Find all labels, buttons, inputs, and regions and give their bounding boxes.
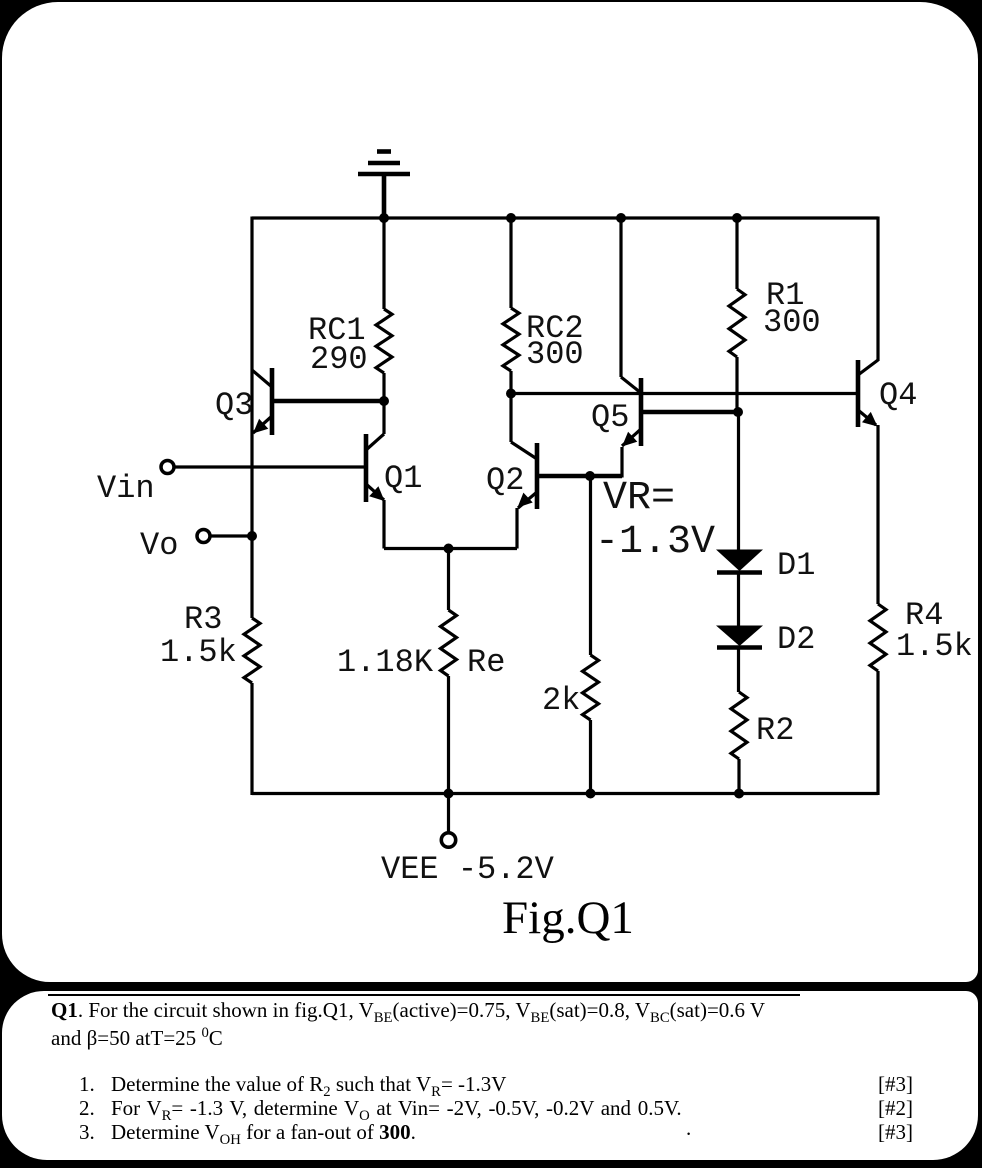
wire Q2 base to VR node [537, 447, 622, 478]
svg-text:VEE -5.2V: VEE -5.2V [381, 851, 555, 888]
transistor Q5 [591, 218, 641, 447]
wire D2 to R2 [737, 647, 740, 692]
transistor Q3 [215, 368, 272, 435]
resistor R4 [870, 597, 973, 795]
svg-text:-1.3V: -1.3V [595, 520, 715, 565]
node Q5 collector at rail [616, 213, 626, 223]
ground [358, 152, 410, 220]
resistor RC2 [503, 218, 584, 394]
node RC2 at rail [506, 213, 516, 223]
svg-text:Q3: Q3 [215, 387, 253, 424]
resistor R1 [729, 218, 821, 412]
svg-text:300: 300 [526, 336, 584, 373]
svg-text:1.5k: 1.5k [896, 628, 973, 665]
svg-text:Vin: Vin [97, 470, 155, 507]
svg-text:D2: D2 [777, 621, 815, 658]
wire Vin to Q1 base [175, 465, 367, 468]
svg-text:300: 300 [763, 304, 821, 341]
resistor R2 [731, 692, 794, 794]
diode D1 [716, 547, 815, 584]
wire RC2 node to Q4 base [511, 392, 858, 395]
resistor Re 1.18K [337, 548, 505, 794]
node R1 at rail [732, 213, 742, 223]
transistor Q2 [486, 394, 537, 510]
wire Q4 emitter down [876, 425, 879, 604]
node emitter junction [444, 544, 454, 554]
node VR junction [585, 471, 595, 481]
svg-text:1.5k: 1.5k [160, 634, 237, 671]
wire Q2 emitter down [515, 508, 518, 549]
node 2k bottom junction [586, 789, 596, 799]
svg-text:Fig.Q1: Fig.Q1 [502, 892, 634, 944]
svg-text:Q1: Q1 [384, 460, 422, 497]
svg-text:2k: 2k [542, 682, 580, 719]
node RC1 bottom junction [379, 396, 389, 406]
node R1 bottom junction [733, 407, 743, 417]
terminal VEE [381, 794, 555, 889]
wire left rail upper [250, 217, 253, 619]
transistor Q4 [858, 360, 917, 427]
resistor RC1 [308, 218, 392, 401]
transistor Q1 [366, 401, 422, 502]
svg-text:Q5: Q5 [591, 399, 629, 436]
wire Q3 base line [272, 399, 384, 404]
wire VR node to 2k [589, 476, 592, 655]
svg-text:Q4: Q4 [879, 377, 917, 414]
node Vo junction [247, 531, 257, 541]
wire Q1 emitter down [382, 500, 385, 549]
node Re bottom junction [444, 789, 454, 799]
wire emitter rail [384, 547, 517, 550]
wire Q5 base to diode node [641, 410, 738, 415]
svg-text:Vo: Vo [140, 527, 178, 564]
wire Vo stub [211, 534, 253, 537]
terminal Vin [97, 461, 174, 508]
diode D2 [716, 621, 815, 658]
svg-text:D1: D1 [777, 547, 815, 584]
node RC2 bottom junction [506, 389, 516, 399]
label VR [595, 476, 715, 565]
terminal Vo [140, 527, 210, 564]
svg-text:R3: R3 [184, 601, 222, 638]
wire right rail upper [876, 217, 879, 362]
resistor 2k [542, 655, 599, 794]
svg-text:Re: Re [467, 644, 505, 681]
wire bottom rail [252, 792, 878, 795]
wire top rail [252, 216, 878, 219]
svg-text:R2: R2 [756, 712, 794, 749]
node R2 bottom junction [734, 789, 744, 799]
resistor R3 [160, 601, 260, 795]
wire diode chain top [737, 412, 740, 550]
node ground at rail [379, 213, 389, 223]
svg-text:VR=: VR= [603, 476, 675, 521]
wire D1 to D2 [737, 572, 740, 626]
svg-text:Q2: Q2 [486, 462, 524, 499]
question text block [48, 994, 800, 996]
svg-text:290: 290 [310, 341, 368, 378]
svg-text:1.18K: 1.18K [337, 644, 434, 681]
